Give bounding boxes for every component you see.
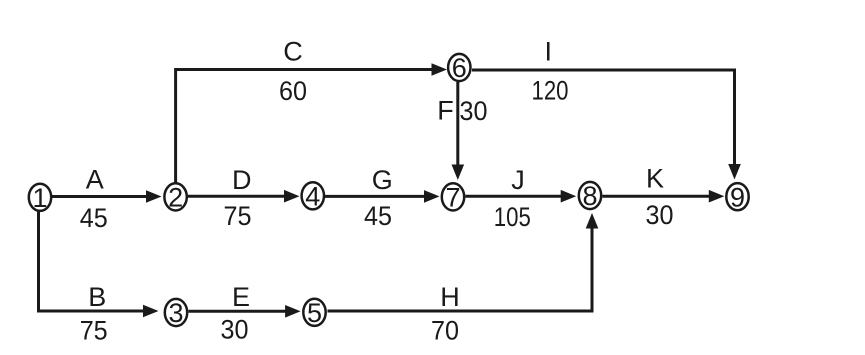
svg-text:6: 6 (452, 53, 467, 83)
svg-text:3: 3 (168, 298, 183, 328)
svg-text:45: 45 (364, 201, 392, 231)
node 4 (302, 182, 324, 212)
svg-text:1: 1 (32, 183, 47, 213)
svg-text:B: B (88, 282, 106, 312)
svg-text:2: 2 (168, 183, 183, 213)
label A value 45 (80, 165, 108, 234)
svg-text:E: E (232, 282, 250, 312)
node 3 (165, 298, 187, 328)
svg-text:7: 7 (445, 183, 460, 213)
wire edge K (8→9) (603, 190, 725, 203)
wire edge F (6→7) (452, 82, 465, 180)
label K value 30 (646, 164, 674, 231)
label E value 30 (221, 282, 251, 345)
wire edge G (4→7) (325, 190, 440, 203)
wire edge E (3→5) (189, 305, 301, 318)
svg-text:G: G (372, 165, 393, 195)
svg-text:J: J (511, 165, 525, 195)
svg-text:30: 30 (646, 200, 674, 230)
svg-text:5: 5 (307, 298, 322, 328)
svg-text:45: 45 (80, 203, 108, 233)
svg-text:C: C (283, 37, 303, 67)
label B value 75 (80, 282, 108, 346)
wire edge B (1→3) (39, 211, 159, 317)
label J value 105 (494, 165, 531, 232)
svg-text:60: 60 (279, 76, 307, 106)
node 8 (579, 181, 601, 211)
node 7 (442, 183, 464, 213)
svg-text:120: 120 (532, 76, 569, 106)
svg-text:9: 9 (730, 182, 745, 212)
svg-text:105: 105 (494, 202, 531, 232)
svg-text:4: 4 (305, 182, 320, 212)
label I value 120 (532, 37, 569, 106)
wire edge C (2→6) (176, 63, 447, 183)
wire edge J (7→8) (466, 190, 577, 203)
svg-text:I: I (544, 37, 552, 67)
node 2 (164, 183, 186, 213)
svg-text:30: 30 (460, 96, 488, 126)
node 6 (448, 53, 470, 83)
node 9 (726, 182, 748, 212)
wire edge D (2→4) (188, 190, 300, 203)
label D value 75 (224, 165, 252, 231)
label H value 70 (431, 282, 460, 346)
label C value 60 (279, 37, 307, 107)
svg-text:A: A (86, 165, 104, 195)
svg-text:30: 30 (221, 315, 249, 345)
svg-text:8: 8 (582, 181, 597, 211)
svg-text:H: H (440, 282, 460, 312)
svg-text:K: K (646, 164, 664, 194)
label F value 30 (437, 96, 487, 127)
svg-text:75: 75 (80, 316, 108, 346)
svg-text:75: 75 (224, 201, 252, 231)
wire edge H (5→8) (328, 213, 599, 311)
svg-text:70: 70 (431, 316, 459, 346)
label G value 45 (364, 165, 393, 231)
node 5 (303, 298, 325, 328)
wire edge I (6→9) (472, 70, 741, 180)
svg-text:D: D (232, 165, 252, 195)
node 1 (29, 183, 51, 213)
svg-text:F: F (437, 96, 454, 126)
wire edge A (1→2) (52, 190, 162, 203)
